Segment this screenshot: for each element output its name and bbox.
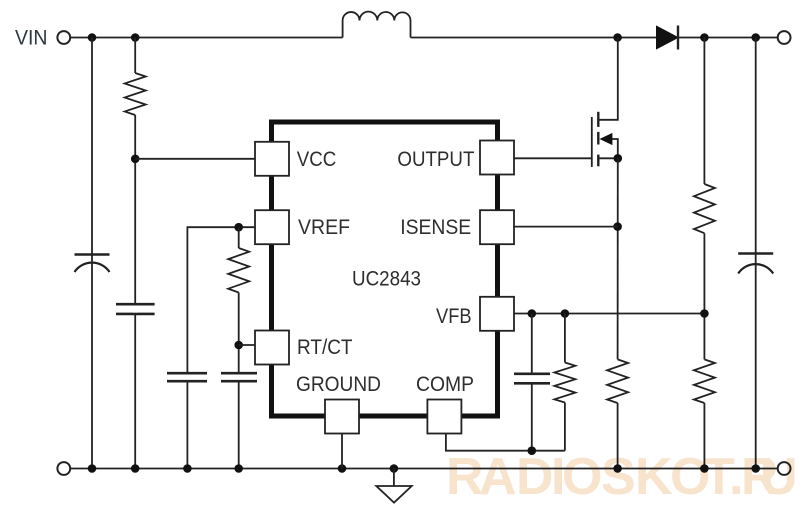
capacitor C2 xyxy=(116,304,155,314)
svg-text:RADIOSKOT.RU: RADIOSKOT.RU xyxy=(446,448,798,506)
junction dot rail C2 xyxy=(131,464,140,473)
capacitor C5 xyxy=(514,374,550,384)
junction dot VFB/divider xyxy=(700,309,709,318)
svg-text:VIN: VIN xyxy=(15,26,48,50)
pin VREF xyxy=(255,210,289,244)
wire R1 to VCC junction and C2 xyxy=(134,115,136,469)
capacitor C6 (output electrolytic) xyxy=(738,254,773,274)
svg-text:VFB: VFB xyxy=(436,304,472,328)
svg-text:UC2843: UC2843 xyxy=(352,267,421,291)
inductor L1 xyxy=(343,12,411,38)
junction dot rail GROUND pin xyxy=(338,464,347,473)
terminal GND left xyxy=(57,462,70,475)
wire top rail xyxy=(70,37,342,39)
Q1 body arrow xyxy=(600,133,613,145)
wire GROUND pin stub xyxy=(341,434,343,469)
junction dot VFB/C5 xyxy=(528,309,537,318)
junction dot rail R6 xyxy=(700,464,709,473)
wire VFB line xyxy=(514,313,704,315)
wire diode to output terminal xyxy=(678,37,778,39)
junction dot rail C6 xyxy=(751,464,760,473)
pin ISENSE xyxy=(480,210,514,244)
pin COMP xyxy=(427,400,461,434)
junction dot rail C4 xyxy=(234,464,243,473)
svg-text:GROUND: GROUND xyxy=(296,372,381,396)
junction dot RT/CT xyxy=(234,341,243,350)
wire divider column upper xyxy=(703,38,705,185)
wire C4 bottom xyxy=(238,381,240,468)
wire C3 bottom xyxy=(186,381,188,468)
svg-text:VCC: VCC xyxy=(297,147,337,171)
wire R4 bottom xyxy=(617,403,619,469)
wire ISENSE xyxy=(514,226,618,228)
wire COMP network xyxy=(446,434,565,451)
wire R2 top stub xyxy=(238,227,240,248)
resistor R6 (divider bottom) xyxy=(694,359,715,403)
wire R6 bottom xyxy=(703,403,705,469)
capacitor C3 xyxy=(167,373,207,381)
resistor R4 (sense) xyxy=(607,359,628,403)
wire C1 column xyxy=(91,38,93,469)
junction dot ISENSE xyxy=(613,222,622,231)
pin VFB xyxy=(480,297,514,331)
wire R1 column upper xyxy=(134,38,136,74)
junction dot rail ground symbol xyxy=(390,464,399,473)
wire R3 top xyxy=(564,314,566,363)
junction dot divider top xyxy=(700,33,709,42)
junction dot VIN/R1 xyxy=(131,33,140,42)
wire OUTPUT to gate xyxy=(514,157,592,159)
resistor R1 xyxy=(125,73,146,115)
resistor R5 (divider top) xyxy=(694,184,715,233)
resistor R3 (comp) xyxy=(554,363,575,403)
junction dot VCC wire xyxy=(131,155,140,164)
wire output cap column xyxy=(755,38,757,469)
wire C5 bottom xyxy=(531,383,533,450)
wire R3 bottom xyxy=(564,403,566,451)
svg-text:RT/CT: RT/CT xyxy=(297,335,353,359)
junction dot VIN/C1 xyxy=(88,33,97,42)
junction dot rail R4 xyxy=(613,464,622,473)
capacitor C4 xyxy=(221,373,257,381)
wire rail inductor to diode xyxy=(411,37,658,39)
capacitor C1 (input electrolytic) xyxy=(75,255,110,273)
wire R5 to VFB node xyxy=(703,233,705,359)
junction dot rail C1 xyxy=(88,464,97,473)
wire R2 to RT/CT junction to C4 xyxy=(238,293,240,374)
wire VREF net xyxy=(187,227,255,373)
wire C5 top xyxy=(531,314,533,374)
svg-text:VREF: VREF xyxy=(298,215,350,239)
pin GROUND xyxy=(325,400,359,434)
junction dot VREF/R2 xyxy=(234,223,243,232)
junction dot source/ISENSE column xyxy=(614,154,623,163)
junction dot drain/rail xyxy=(613,33,622,42)
diode D1 xyxy=(657,26,679,50)
pin OUTPUT xyxy=(480,141,514,175)
pin VCC xyxy=(255,142,289,176)
resistor R2 xyxy=(228,248,249,293)
terminal VIN xyxy=(57,31,70,44)
terminal GND right xyxy=(778,462,791,475)
junction dot output cap top xyxy=(751,33,760,42)
svg-text:COMP: COMP xyxy=(416,372,474,396)
pin RT/CT xyxy=(255,331,289,365)
terminal VOUT xyxy=(778,31,791,44)
IC U1 UC2843 body xyxy=(272,122,498,416)
junction dot rail C3 xyxy=(183,464,192,473)
wire RT/CT pin xyxy=(239,344,255,346)
junction dot VFB/R3 xyxy=(561,309,570,318)
wire bottom rail xyxy=(70,468,777,470)
svg-text:ISENSE: ISENSE xyxy=(400,215,471,239)
ground symbol xyxy=(376,469,411,503)
junction dot comp node xyxy=(528,446,537,455)
wire source down to R4 xyxy=(617,158,619,359)
transistor Q1 (n-MOSFET) xyxy=(592,38,618,168)
svg-text:OUTPUT: OUTPUT xyxy=(397,147,474,171)
wire VCC xyxy=(135,158,255,160)
